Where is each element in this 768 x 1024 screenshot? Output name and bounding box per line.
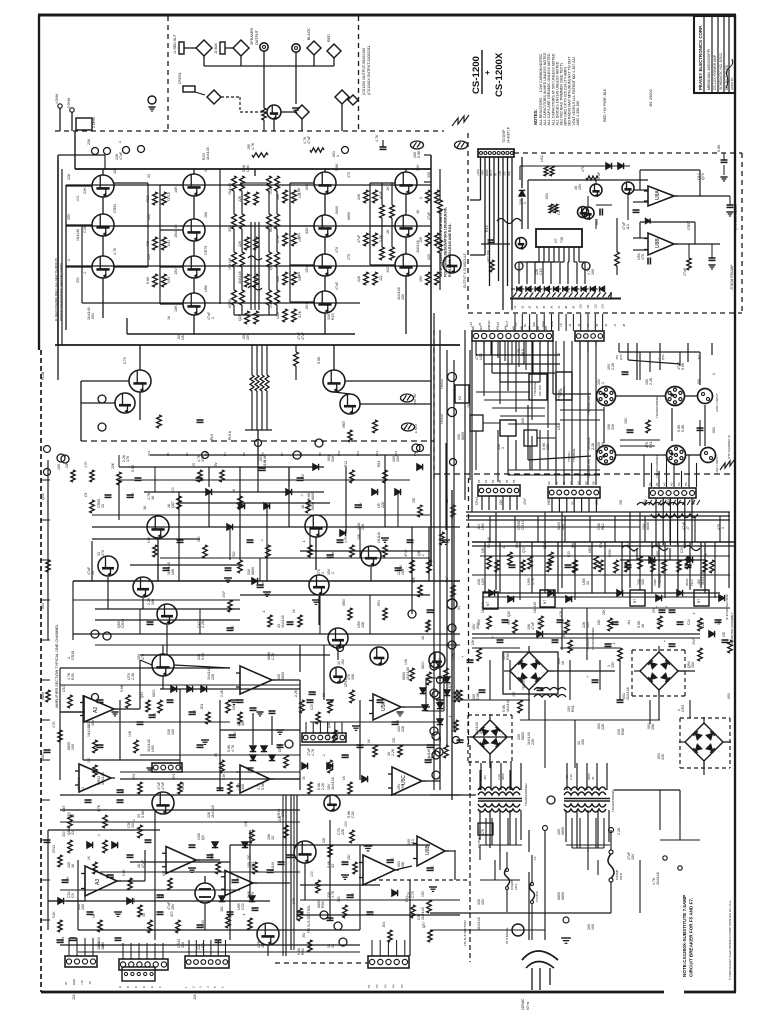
resistor emitter pair (292, 309, 297, 322)
svg-text:+5: +5 (559, 323, 563, 327)
resistor (292, 608, 302, 627)
svg-text:1K: 1K (561, 660, 565, 665)
labels right mid (653, 573, 694, 586)
plug P1 (184, 40, 212, 56)
svg-text:47uF: 47uF (597, 171, 601, 180)
node TS2 (440, 373, 457, 390)
transistor Q18 (317, 356, 345, 392)
svg-text:2.2K: 2.2K (591, 442, 595, 450)
resistor (602, 608, 612, 631)
resistor emitter pair (292, 190, 297, 203)
svg-text:.1: .1 (118, 141, 122, 144)
svg-text:6800: 6800 (588, 546, 592, 553)
resistor (344, 461, 354, 483)
resistor R64 (545, 193, 558, 213)
svg-text:OUTPUT: OUTPUT (255, 29, 259, 45)
svg-text:P1: P1 (166, 452, 170, 456)
svg-text:CB.B: CB.B (619, 873, 623, 880)
svg-text:F5: F5 (533, 856, 537, 860)
svg-text:J42: J42 (386, 267, 390, 273)
wire mr4 (470, 350, 700, 482)
svg-text:Q46: Q46 (619, 354, 623, 360)
node E2 (334, 922, 342, 930)
resistor (404, 549, 414, 573)
svg-text:RED +5V PWR, BLK: RED +5V PWR, BLK (603, 88, 607, 122)
dashed boundary (81, 440, 434, 442)
svg-text:470: 470 (347, 172, 351, 178)
svg-text:J7 BCM PREAMP: J7 BCM PREAMP (730, 265, 734, 290)
svg-text:5.6K: 5.6K (261, 782, 265, 790)
resistor emitter (146, 192, 157, 205)
labels bottom (67, 821, 425, 955)
svg-text:.001: .001 (132, 774, 136, 780)
resistor emitter (357, 272, 368, 285)
svg-text:AMPLIFIER SECTION TYPICAL ONE: AMPLIFIER SECTION TYPICAL ONE CHANNEL (55, 624, 59, 708)
svg-text:60 Hz: 60 Hz (526, 1001, 530, 1010)
relay box K2 (500, 420, 516, 436)
resistor (434, 526, 444, 545)
pin label row (513, 304, 605, 309)
resistor R75 (646, 420, 650, 433)
op-amp U6B (413, 836, 449, 866)
svg-text:33: 33 (91, 571, 95, 575)
resistor emitter pair (373, 190, 378, 203)
dashed boundary (503, 652, 558, 694)
svg-text:W4: W4 (503, 325, 507, 330)
resistor (533, 602, 543, 629)
svg-text:.001: .001 (297, 233, 301, 240)
svg-text:.1: .1 (336, 155, 340, 158)
resistor (232, 551, 242, 573)
wire psu r4c (480, 660, 690, 790)
svg-text:W6: W6 (520, 325, 524, 330)
svg-text:P4: P4 (223, 452, 227, 456)
svg-text:.1: .1 (262, 610, 266, 613)
wire J11 drop (484, 341, 548, 428)
capacitor (115, 938, 122, 940)
node D4 (285, 740, 293, 748)
labels psu (472, 521, 725, 712)
svg-text:J3: J3 (528, 306, 532, 309)
resistor (588, 546, 598, 569)
svg-text:J8: J8 (564, 306, 568, 309)
capacitor (145, 840, 152, 842)
capacitor C25 (717, 144, 728, 181)
svg-text:33: 33 (313, 691, 317, 695)
svg-text:Q6: Q6 (417, 551, 421, 556)
resistor (214, 461, 224, 482)
svg-text:5.6K: 5.6K (297, 187, 301, 195)
svg-text:.1: .1 (322, 754, 326, 757)
resistor (302, 776, 312, 794)
svg-text:Q56: Q56 (661, 354, 665, 360)
resistor (278, 815, 288, 838)
svg-text:P10: P10 (337, 450, 341, 456)
wire mesh mid vert (179, 443, 446, 614)
svg-text:BLACK: BLACK (307, 28, 311, 40)
capacitor (229, 731, 238, 738)
svg-text:W2: W2 (487, 325, 491, 330)
svg-text:6800: 6800 (269, 224, 273, 232)
wire (204, 56, 296, 66)
label module note right (439, 207, 467, 288)
svg-text:CR44: CR44 (475, 497, 479, 505)
wire (264, 51, 334, 108)
svg-text:.1: .1 (81, 787, 85, 790)
labels mr4 (557, 354, 701, 448)
transistor Q32 (582, 207, 594, 220)
wire (39, 15, 41, 992)
label right border (730, 612, 734, 646)
labels psu r4b (457, 606, 731, 745)
svg-text:TRANSFORMER: TRANSFORMER (591, 627, 595, 650)
svg-text:1N4148: 1N4148 (271, 862, 275, 873)
svg-text:1K: 1K (416, 209, 420, 214)
dashed net boundary (55, 130, 444, 132)
wire bottom bus (55, 318, 460, 345)
svg-text:4.7K: 4.7K (52, 721, 56, 728)
capacitor (252, 908, 259, 910)
svg-text:33: 33 (147, 174, 151, 178)
jack J6 (148, 96, 156, 111)
svg-text:6800: 6800 (547, 498, 551, 505)
resistor (421, 661, 431, 685)
op-amp A2 (80, 696, 118, 722)
ground (352, 726, 360, 730)
caps psu (491, 636, 729, 646)
svg-text:J68: J68 (204, 212, 208, 218)
capacitor (425, 757, 434, 763)
svg-text:6800: 6800 (210, 853, 214, 860)
svg-text:U8B: U8B (655, 238, 661, 248)
svg-text:4.7K: 4.7K (331, 890, 335, 898)
diode CR60 (58, 898, 64, 904)
svg-text:22K: 22K (602, 608, 606, 615)
resistor (84, 461, 94, 482)
connector strip J27 (368, 956, 409, 968)
svg-text:A2: A2 (93, 707, 99, 713)
connector strip J21 (649, 488, 696, 498)
svg-text:C20: C20 (310, 704, 314, 710)
svg-text:NT: NT (543, 600, 547, 604)
transistor F6 (505, 924, 524, 944)
diode CR61 (127, 898, 133, 904)
bridge rectifier BR4 (679, 717, 729, 767)
resistor (438, 735, 448, 758)
resistor (222, 591, 232, 612)
resistor (147, 536, 157, 557)
svg-text:10K: 10K (471, 638, 475, 645)
resistor (342, 421, 352, 442)
svg-text:470: 470 (192, 462, 196, 468)
resistor (310, 704, 320, 724)
resistor emitter (276, 233, 287, 246)
svg-text:6800: 6800 (342, 421, 346, 428)
svg-text:2.2K: 2.2K (233, 731, 237, 738)
node P1 (432, 751, 440, 759)
diode CR53 (250, 746, 256, 752)
svg-text:P5: P5 (400, 984, 404, 988)
resistor (612, 642, 622, 661)
node T5 (91, 630, 99, 638)
resistor R45 (294, 345, 299, 380)
connector strip J12 (575, 331, 604, 341)
svg-text:R56: R56 (506, 653, 510, 660)
wire (60, 676, 163, 760)
node P2 (432, 771, 440, 779)
svg-text:100: 100 (57, 464, 61, 470)
resistor emitter pair (254, 311, 259, 324)
transistor Q15 (443, 255, 461, 273)
svg-text:5.6K: 5.6K (681, 362, 685, 370)
node E1 (320, 911, 328, 919)
capacitor (157, 893, 166, 898)
svg-text:J12: J12 (593, 304, 597, 309)
svg-text:1K: 1K (386, 229, 390, 234)
svg-text:1K: 1K (143, 505, 147, 510)
resistor (84, 493, 94, 513)
svg-text:15V: 15V (421, 890, 425, 897)
wire bl4 (60, 822, 460, 952)
resistor (608, 549, 618, 573)
dashed net boundary 2 (358, 16, 360, 131)
svg-text:J2: J2 (520, 306, 524, 309)
resistor (344, 821, 354, 843)
diode CR20 (519, 157, 525, 229)
connector strip J20 (548, 487, 600, 498)
svg-text:47uF: 47uF (692, 638, 696, 645)
bus bl4 (283, 795, 294, 956)
transistor Q63 (294, 841, 316, 863)
wire (193, 196, 195, 334)
svg-text:47uF: 47uF (683, 267, 687, 276)
capacitor (57, 937, 66, 943)
resistor (87, 855, 97, 874)
capacitor C51 (269, 711, 276, 713)
diode rb (606, 163, 624, 169)
svg-text:Q66: Q66 (515, 542, 519, 548)
svg-text:P4: P4 (392, 984, 396, 988)
wire bus vertical (476, 341, 548, 391)
svg-text:.001: .001 (61, 937, 65, 943)
svg-text:1N4148: 1N4148 (481, 602, 485, 613)
transistor Q5 (174, 219, 205, 241)
node TS3 (440, 408, 457, 425)
svg-text:AND 4,398,156: AND 4,398,156 (576, 101, 580, 126)
svg-text:100: 100 (641, 579, 645, 585)
capacitor (259, 460, 268, 471)
svg-text:4.7K: 4.7K (231, 744, 235, 752)
svg-text:1N4148: 1N4148 (533, 602, 537, 613)
resistor (322, 754, 332, 773)
wire harness (481, 157, 513, 310)
notes list (533, 52, 580, 125)
relay box K1 (455, 385, 469, 403)
svg-text:1N4148: 1N4148 (281, 615, 285, 628)
DIN connector J17 (655, 446, 686, 479)
svg-text:470: 470 (101, 550, 105, 556)
svg-text:W5: W5 (512, 325, 516, 330)
svg-text:CR57: CR57 (687, 221, 691, 230)
connector strip J26 (185, 956, 229, 968)
resistor ladder 0 (232, 176, 237, 315)
svg-text:U28: U28 (479, 353, 483, 360)
svg-text:15V: 15V (481, 898, 485, 905)
svg-text:Q24: Q24 (140, 692, 144, 698)
svg-text:2.2K: 2.2K (294, 689, 298, 697)
diode CR40 (206, 489, 212, 495)
svg-text:P7: P7 (280, 452, 284, 456)
wire lm4 (73, 480, 460, 645)
svg-text:.1: .1 (204, 170, 208, 173)
capacitor C30 (624, 417, 634, 432)
svg-text:47uF: 47uF (222, 591, 226, 598)
wire section divider (424, 155, 431, 565)
resistor (87, 757, 97, 777)
resistor (404, 658, 414, 681)
svg-text:330: 330 (331, 456, 335, 462)
wire long (163, 645, 324, 700)
connector J5 (178, 72, 195, 92)
svg-text:D: D (142, 986, 146, 988)
svg-text:FL1B: FL1B (41, 371, 45, 380)
svg-text:47uF: 47uF (119, 151, 123, 160)
resistor R60 (486, 250, 494, 272)
capacitor C70 (460, 655, 474, 662)
thermal labels (557, 386, 576, 462)
op-amp U8B (644, 233, 678, 255)
svg-text:33: 33 (586, 581, 590, 585)
resistor (87, 725, 97, 753)
svg-text:6800: 6800 (561, 827, 565, 835)
transistor Q46 (309, 575, 329, 595)
wire (490, 690, 704, 775)
wire psu r4a (466, 516, 735, 638)
svg-text:H2: H2 (662, 482, 666, 486)
svg-text:1N4148: 1N4148 (406, 667, 410, 680)
wire mesh lower (60, 655, 460, 795)
wire (66, 186, 92, 267)
resistor emitter (419, 190, 430, 203)
svg-text:CR18: CR18 (71, 651, 75, 660)
svg-text:10K: 10K (404, 658, 408, 665)
wire bus (434, 500, 454, 790)
svg-text:6800: 6800 (311, 502, 315, 510)
svg-text:(TYP. CH1 500/5W): (TYP. CH1 500/5W) (734, 204, 738, 230)
svg-text:4.7K: 4.7K (311, 748, 315, 756)
wire (508, 405, 591, 475)
capacitor (227, 625, 236, 631)
resistor (122, 869, 132, 890)
svg-text:U95: U95 (151, 745, 155, 752)
svg-text:C5: C5 (71, 893, 75, 898)
svg-text:P13: P13 (394, 450, 398, 456)
svg-text:22K: 22K (359, 501, 363, 508)
transistor Q13 (386, 215, 417, 237)
dashed boundary y474 (434, 473, 733, 475)
resistor (380, 205, 385, 218)
psu left col parts (421, 620, 462, 702)
svg-text:J1 RED OUT: J1 RED OUT (173, 34, 177, 54)
rect K7 (630, 590, 645, 606)
svg-text:2 OHM: 2 OHM (92, 117, 96, 128)
svg-text:SIG: SIG (507, 170, 511, 176)
ground (114, 868, 437, 916)
svg-text:0.5AMP: 0.5AMP (510, 880, 514, 890)
svg-text:100: 100 (310, 871, 314, 877)
connector strip J11 (472, 331, 553, 341)
svg-text:NT: NT (486, 602, 490, 606)
svg-text:J13: J13 (601, 304, 605, 309)
resistor (405, 896, 415, 918)
svg-text:FOLLOWING DESIGNATORS 196,R96,: FOLLOWING DESIGNATORS 196,R96,R146, (444, 207, 448, 277)
transistor Q43 (133, 577, 153, 597)
resistor emitter (357, 233, 368, 246)
svg-text:TO DISP: TO DISP (502, 129, 506, 143)
svg-text:470: 470 (335, 247, 339, 253)
svg-text:U49: U49 (201, 943, 205, 950)
svg-text:330: 330 (427, 172, 431, 178)
svg-text:15V: 15V (171, 903, 175, 910)
svg-text:.1: .1 (712, 373, 716, 376)
svg-text:1N4148: 1N4148 (701, 572, 705, 585)
transistor Q33 (578, 207, 589, 219)
svg-text:15V: 15V (174, 268, 178, 275)
wire (41, 991, 736, 994)
wire (160, 185, 183, 304)
node F3 (57, 454, 65, 462)
svg-text:C33: C33 (241, 903, 245, 910)
resistor emitter (238, 192, 249, 205)
svg-text:R12: R12 (344, 461, 348, 467)
svg-text:R56: R56 (412, 577, 416, 583)
labels lower (67, 652, 410, 790)
svg-text:W7: W7 (528, 325, 532, 330)
diodes bottom (87, 842, 398, 896)
resistor (448, 715, 458, 732)
svg-text:.1: .1 (260, 539, 264, 542)
svg-text:G3: G3 (569, 481, 573, 485)
connector TS1 (55, 94, 92, 131)
svg-text:J2: J2 (568, 324, 572, 327)
svg-text:PEAVEY ELECTRONICS CORP.: PEAVEY ELECTRONICS CORP. (698, 25, 703, 90)
wire (38, 14, 736, 17)
transistor Q45 (357, 533, 381, 566)
svg-text:LOW Z INPUT: LOW Z INPUT (715, 455, 719, 474)
svg-text:35013: 35013 (685, 578, 689, 586)
label under box (469, 320, 626, 327)
svg-text:4.7K: 4.7K (113, 247, 117, 255)
op-amp U5C (388, 767, 426, 795)
svg-text:1N4148: 1N4148 (238, 271, 242, 284)
lamp PL1 (447, 599, 457, 609)
resistor (347, 853, 357, 874)
svg-text:ACT 15K: ACT 15K (486, 250, 490, 262)
svg-text:10K: 10K (174, 186, 178, 193)
svg-text:P2: P2 (491, 479, 495, 483)
svg-text:5.6K: 5.6K (717, 144, 721, 152)
dashed boundary (275, 962, 368, 964)
svg-text:22K: 22K (401, 725, 405, 732)
resistor (421, 890, 431, 913)
svg-text:33: 33 (101, 504, 105, 508)
labels psu res bank (477, 618, 721, 625)
svg-text:R30: R30 (71, 673, 75, 680)
wire psu vert2 (500, 542, 705, 593)
capacitor C1 (87, 138, 111, 154)
resistor (292, 897, 302, 921)
ground (276, 730, 284, 734)
